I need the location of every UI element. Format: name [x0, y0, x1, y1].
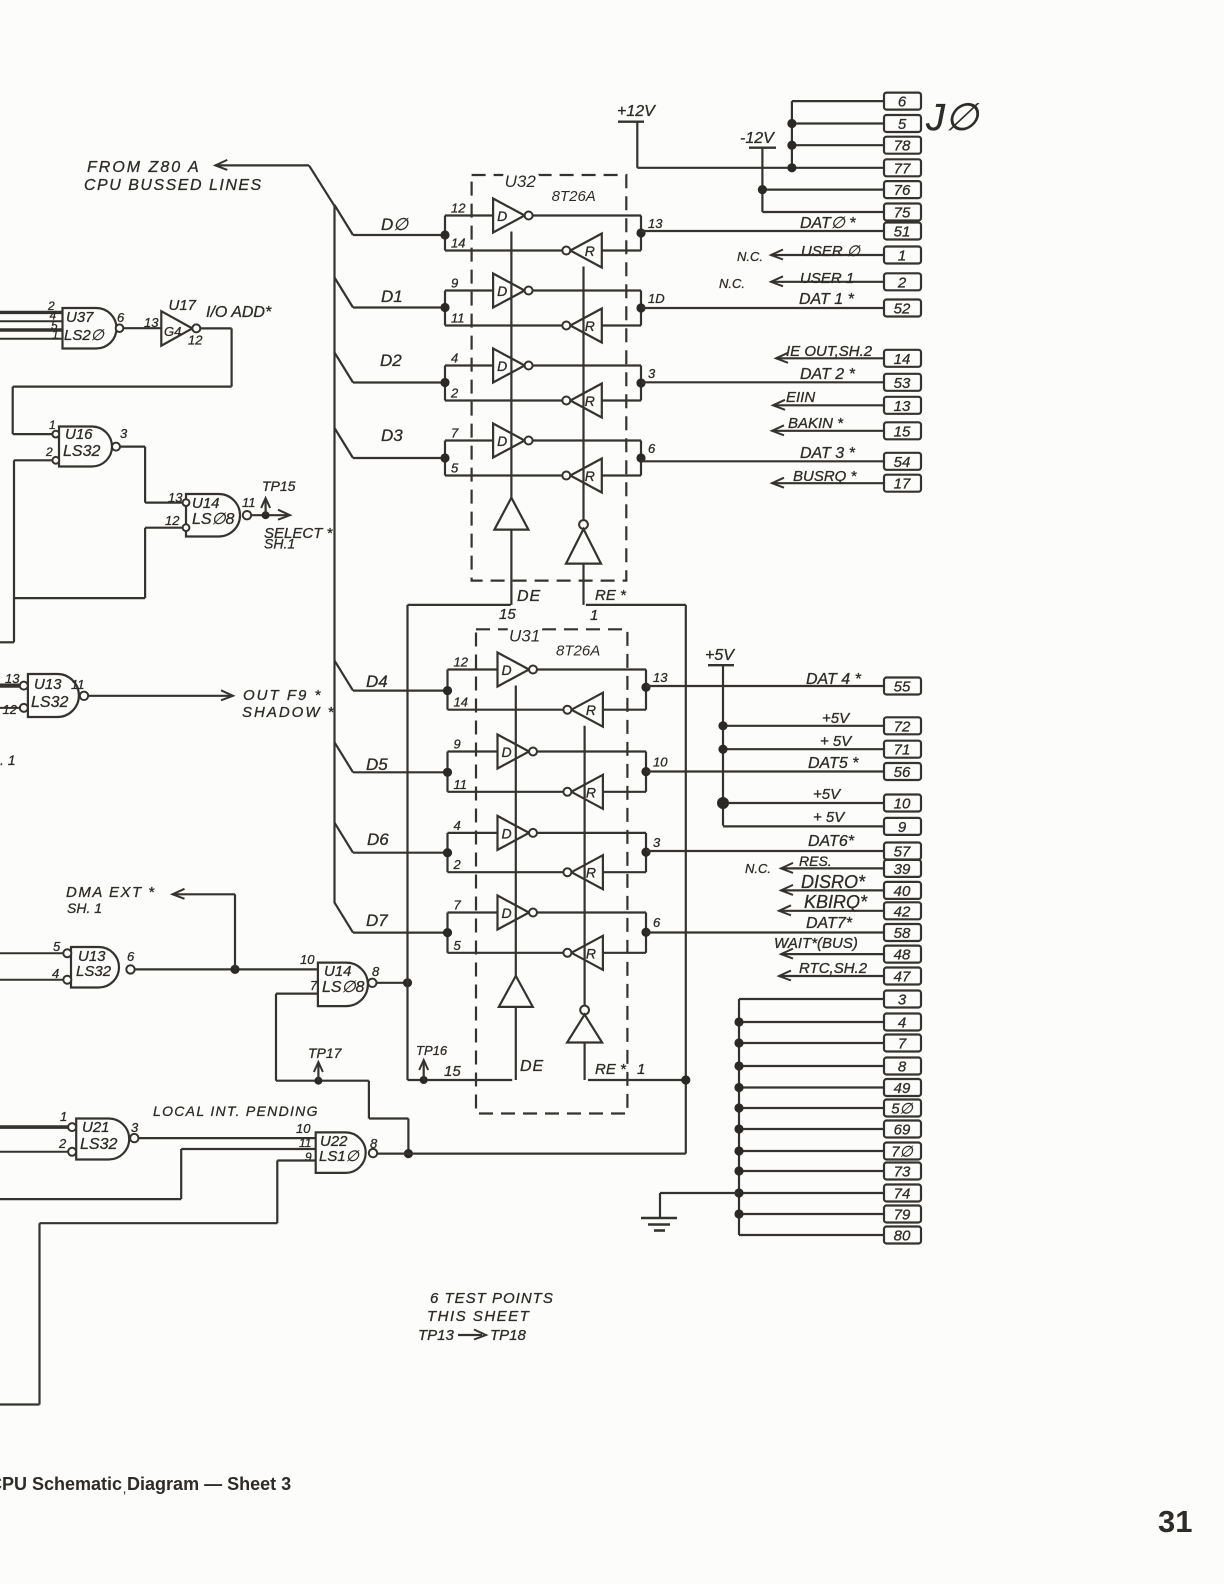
svg-text:D5: D5	[366, 755, 388, 774]
svg-text:49: 49	[894, 1080, 911, 1097]
svg-text:79: 79	[894, 1207, 911, 1224]
svg-text:IE OUT,SH.2: IE OUT,SH.2	[786, 343, 873, 360]
svg-text:DAT 3 *: DAT 3 *	[800, 445, 856, 462]
svg-text:N.C.: N.C.	[737, 249, 763, 264]
svg-text:55: 55	[894, 679, 911, 696]
wire RTC,SH.2 pin 47	[779, 960, 921, 986]
wire RES. N.C. pin 39	[745, 853, 921, 878]
svg-text:U32: U32	[505, 172, 537, 191]
svg-text:D: D	[502, 825, 512, 841]
svg-text:5: 5	[451, 461, 459, 476]
svg-text:N.C.: N.C.	[745, 861, 771, 876]
wire ground pin 8	[734, 1058, 921, 1076]
svg-text:. 1: . 1	[0, 752, 16, 768]
svg-text:8: 8	[370, 1136, 378, 1151]
svg-text:DAT5 *: DAT5 *	[808, 755, 859, 772]
svg-text:9: 9	[305, 1150, 312, 1164]
wire ground pin 80	[739, 1227, 921, 1245]
svg-text:LS2∅: LS2∅	[64, 327, 105, 344]
svg-text:SHADOW *: SHADOW *	[242, 704, 336, 721]
svg-text:15: 15	[499, 606, 516, 623]
svg-text:D∅: D∅	[381, 215, 409, 234]
svg-text:7: 7	[310, 978, 318, 993]
wire USER0 N.C. pin 1	[737, 243, 921, 265]
svg-text:5∅: 5∅	[891, 1101, 913, 1118]
svg-text:D: D	[497, 433, 507, 449]
power -12V	[740, 130, 776, 212]
svg-text:D: D	[502, 662, 512, 678]
svg-text:4: 4	[451, 351, 458, 366]
svg-text:7: 7	[451, 426, 459, 441]
svg-text:J∅: J∅	[925, 97, 980, 139]
svg-text:8: 8	[372, 964, 380, 979]
svg-text:39: 39	[894, 861, 911, 878]
svg-text:42: 42	[894, 903, 911, 920]
wire DISRO* pin 40	[781, 872, 921, 900]
svg-text:6: 6	[127, 949, 135, 964]
svg-text:U13: U13	[34, 676, 62, 693]
svg-text:LS32: LS32	[76, 963, 112, 980]
svg-text:75: 75	[894, 205, 911, 222]
svg-text:12: 12	[454, 655, 469, 670]
wire DAT5* line to pin 56	[646, 755, 921, 781]
svg-text:47: 47	[894, 969, 911, 986]
svg-text:78: 78	[894, 138, 911, 155]
wire ground pin 49	[734, 1079, 921, 1097]
svg-text:DAT 2 *: DAT 2 *	[800, 366, 856, 383]
svg-text:13: 13	[648, 216, 663, 231]
svg-text:+ 5V: + 5V	[820, 733, 853, 750]
wire ground bus vertical	[738, 999, 740, 1235]
svg-text:USER ∅: USER ∅	[801, 243, 861, 260]
svg-text:U21: U21	[82, 1119, 110, 1136]
svg-text:52: 52	[894, 301, 911, 318]
wire data line D3 stub	[335, 426, 446, 458]
svg-text:10: 10	[296, 1121, 311, 1136]
ground symbol	[641, 1193, 739, 1231]
svg-text:58: 58	[894, 925, 911, 942]
svg-text:DE: DE	[520, 1058, 544, 1075]
svg-text:6: 6	[898, 94, 907, 111]
svg-text:1: 1	[52, 328, 59, 342]
svg-text:LS∅8: LS∅8	[192, 511, 235, 528]
wire ground pin 7	[734, 1035, 921, 1053]
svg-text:14: 14	[454, 695, 468, 710]
wire WAIT*(BUS) pin 48	[774, 935, 921, 964]
svg-text:R: R	[586, 702, 596, 718]
svg-text:6: 6	[117, 310, 125, 325]
svg-text:R: R	[585, 318, 595, 334]
svg-text:R: R	[586, 784, 596, 800]
svg-text:56: 56	[894, 764, 911, 781]
wire OUT F9* / SHADOW* output arrow	[88, 687, 335, 721]
wire data line D0 stub	[335, 205, 446, 235]
svg-text:DAT 4 *: DAT 4 *	[806, 671, 862, 688]
svg-text:LS32: LS32	[80, 1136, 117, 1153]
wire DAT7* line to pin 58	[646, 915, 921, 942]
svg-text:U37: U37	[66, 309, 94, 326]
svg-text:40: 40	[894, 883, 911, 900]
wire DAT1* line to pin 52	[641, 291, 921, 318]
wire RE* net U22.8 to U32.1 and U31.1	[377, 605, 690, 1154]
buffer U31 DE driver	[444, 686, 544, 1081]
svg-text:9: 9	[451, 276, 458, 291]
svg-text:KBIRQ*: KBIRQ*	[804, 892, 868, 912]
svg-text:R: R	[585, 393, 595, 409]
svg-text:1D: 1D	[648, 291, 665, 306]
wire data line D2 stub	[335, 351, 446, 383]
buffer U32 row pins 7/5 out 6	[440, 424, 656, 493]
wire data line D4 stub	[335, 661, 448, 691]
svg-text:R: R	[585, 468, 595, 484]
svg-text:SH. 1: SH. 1	[67, 900, 102, 916]
svg-text:DMA EXT *: DMA EXT *	[66, 884, 156, 901]
svg-text:11: 11	[71, 677, 85, 692]
buffer U32 row pins 4/2 out 3	[440, 349, 656, 418]
svg-text:11: 11	[454, 777, 468, 792]
svg-text:12: 12	[3, 702, 18, 717]
svg-text:U14: U14	[324, 963, 352, 980]
svg-text:15: 15	[894, 423, 911, 440]
svg-text:1: 1	[637, 1061, 645, 1078]
wire ground pin 4	[734, 1014, 921, 1032]
wire EIIN pin 13	[773, 389, 921, 415]
wire ground pin 79	[734, 1206, 921, 1224]
svg-text:LOCAL INT. PENDING: LOCAL INT. PENDING	[153, 1103, 319, 1119]
buffer U31 row pins 12/14 out 13	[443, 653, 668, 727]
svg-text:USER 1: USER 1	[800, 270, 854, 287]
wire data line D1 stub	[335, 278, 446, 308]
svg-text:12: 12	[188, 333, 203, 348]
svg-text:U16: U16	[65, 426, 93, 443]
svg-text:BAKIN *: BAKIN *	[788, 415, 844, 432]
wire U14a pin12 net	[13, 528, 182, 598]
svg-text:53: 53	[894, 375, 911, 392]
svg-text:2: 2	[453, 857, 462, 872]
wire KBIRQ* pin 42	[779, 892, 921, 920]
wire U22 pin11 net to page edge	[0, 1149, 316, 1199]
svg-text:9: 9	[898, 819, 907, 836]
svg-text:D6: D6	[367, 830, 389, 849]
wire DAT2* line to pin 53	[641, 366, 921, 392]
svg-text:DAT 1 *: DAT 1 *	[799, 291, 855, 308]
svg-text:+5V: +5V	[705, 647, 735, 664]
svg-text:80: 80	[894, 1228, 911, 1245]
wire data line D6 stub	[335, 823, 448, 853]
svg-text:13: 13	[894, 398, 911, 415]
svg-text:TP13: TP13	[418, 1327, 455, 1344]
svg-text:72: 72	[894, 718, 911, 735]
svg-text:I/O ADD*: I/O ADD*	[206, 304, 272, 321]
svg-text:EIIN: EIIN	[786, 389, 815, 406]
svg-text:RTC,SH.2: RTC,SH.2	[799, 960, 868, 977]
buffer U31 RE driver	[567, 726, 645, 1080]
svg-text:51: 51	[894, 224, 911, 241]
buffer U31 row pins 4/2 out 3	[443, 816, 661, 889]
wire data line D5 stub	[335, 742, 448, 774]
wire +12V bus to pins 6,5,78,77	[637, 101, 884, 172]
svg-text:6: 6	[653, 915, 661, 930]
svg-text:CPU BUSSED LINES: CPU BUSSED LINES	[84, 177, 263, 194]
svg-text:TP15: TP15	[262, 478, 296, 494]
svg-text:4: 4	[454, 818, 461, 833]
svg-text:1: 1	[49, 418, 56, 432]
wire DAT3* line to pin 54	[641, 445, 921, 471]
svg-text:LS32: LS32	[63, 443, 100, 460]
buffer U32 row pins 12/14 out 13	[440, 199, 663, 268]
svg-text:13: 13	[5, 671, 20, 686]
svg-text:57: 57	[894, 844, 911, 861]
svg-text:BUSRQ *: BUSRQ *	[793, 468, 858, 485]
svg-text:TP17: TP17	[308, 1045, 343, 1061]
svg-text:13: 13	[653, 670, 668, 685]
svg-text:DAT7*: DAT7*	[806, 915, 853, 932]
wire +5V to pin 9	[723, 809, 921, 836]
buffer U32 RE driver	[566, 267, 627, 625]
caption CPU Schematic Diagram Sheet 3	[0, 1474, 291, 1504]
svg-text:N.C.: N.C.	[719, 276, 745, 291]
svg-text:FROM Z80 A: FROM Z80 A	[87, 159, 201, 176]
svg-text:D4: D4	[366, 672, 388, 691]
wire IE OUT,SH.2 pin 14	[776, 343, 921, 368]
svg-text:OUT F9 *: OUT F9 *	[243, 687, 322, 704]
buffer U32 row pins 9/11 out 1D	[440, 274, 664, 343]
svg-text:13: 13	[168, 490, 183, 505]
svg-text:LS32: LS32	[31, 694, 68, 711]
gate U37 LS20 4-input NAND	[0, 299, 125, 349]
svg-text:THIS SHEET: THIS SHEET	[427, 1308, 531, 1325]
svg-text:D1: D1	[381, 287, 403, 306]
svg-text:1: 1	[898, 248, 906, 265]
wire +5V to pin 10	[717, 786, 921, 813]
svg-text:LS1∅: LS1∅	[319, 1148, 360, 1165]
svg-text:11: 11	[451, 311, 465, 326]
svg-text:10: 10	[653, 755, 668, 770]
wire ground pin 3	[739, 991, 921, 1009]
svg-text:D2: D2	[380, 351, 402, 370]
svg-text:13: 13	[144, 315, 159, 330]
svg-text:2: 2	[45, 445, 53, 459]
svg-text:8T26A: 8T26A	[556, 642, 600, 659]
svg-text:3: 3	[131, 1120, 139, 1135]
svg-text:7: 7	[454, 898, 462, 913]
svg-text:TP18: TP18	[490, 1327, 527, 1344]
svg-text:+5V: +5V	[813, 786, 842, 803]
power +12V	[617, 103, 656, 168]
svg-text:3: 3	[898, 992, 907, 1009]
svg-text:8: 8	[898, 1059, 907, 1076]
wire +5V to pin 71	[718, 733, 921, 759]
buffer U32 DE driver	[494, 232, 541, 624]
wire DAT4* line to pin 55	[646, 671, 921, 696]
wire USER1 N.C. pin 2	[719, 270, 921, 291]
svg-text:10: 10	[894, 796, 911, 813]
svg-text:SH.1: SH.1	[264, 536, 295, 552]
wire +5V to pin 72	[718, 710, 921, 735]
gate U22 LS10	[296, 1121, 378, 1173]
gate U13 LS32 (bottom)	[0, 939, 135, 988]
svg-text:11: 11	[242, 495, 256, 510]
gate U14 LS08 (top)	[165, 490, 256, 537]
buffer U31 row pins 9/11 out 10	[443, 735, 668, 809]
svg-text:14: 14	[451, 236, 465, 251]
svg-text:R: R	[586, 865, 596, 881]
gate U16 LS32	[45, 418, 128, 467]
svg-text:9: 9	[454, 737, 461, 752]
svg-text:76: 76	[894, 182, 911, 199]
wire U16.3 to U14a.13	[120, 447, 183, 503]
wire I/O ADD* net U17.12 to U16.1	[13, 328, 232, 434]
test point TP17	[308, 1045, 343, 1085]
svg-text:D7: D7	[366, 911, 388, 930]
IC U31 8T26A bus transceiver dashed outline	[476, 626, 627, 1113]
svg-text:8T26A: 8T26A	[552, 188, 596, 205]
svg-text:+5V: +5V	[822, 710, 851, 727]
svg-text:4: 4	[898, 1015, 906, 1032]
svg-text:74: 74	[894, 1186, 911, 1203]
svg-text:D: D	[502, 744, 512, 760]
gate U14 LS08 (middle)	[300, 952, 380, 1006]
svg-text:73: 73	[894, 1164, 911, 1181]
wire U13b.6 to U14b.10 with DMA EXT* branch	[66, 884, 318, 974]
wire -12V to pins 76,75	[758, 185, 884, 212]
svg-text:2: 2	[58, 1136, 67, 1151]
svg-text:6 TEST POINTS: 6 TEST POINTS	[430, 1290, 554, 1307]
svg-text:+ 5V: + 5V	[813, 809, 846, 826]
svg-text:CPU Schematic Diagram — Sheet: CPU Schematic Diagram — Sheet 3	[0, 1474, 291, 1494]
svg-text:6: 6	[648, 441, 656, 456]
svg-text:LS∅8: LS∅8	[322, 979, 365, 996]
wire DAT6* line to pin 57	[646, 833, 921, 861]
svg-text:-12V: -12V	[740, 130, 775, 147]
svg-text:TP16: TP16	[416, 1043, 448, 1058]
svg-text:5: 5	[53, 939, 61, 954]
svg-text:3: 3	[653, 835, 661, 850]
svg-text:5: 5	[454, 938, 462, 953]
svg-text:1: 1	[60, 1109, 67, 1124]
wire DAT0* line to pin 51	[641, 215, 921, 241]
wire BUSRQ* pin 17	[772, 468, 921, 493]
wire ground pin 69	[734, 1121, 921, 1139]
wire DE net U14b.8 to U32.15 and U31.15	[377, 605, 513, 1080]
wire BAKIN* pin 15	[772, 415, 921, 440]
wire U21.3 to U22.10	[139, 1137, 316, 1139]
svg-text:3: 3	[120, 426, 128, 441]
wire data line D7 stub	[335, 903, 448, 933]
svg-text:’: ’	[123, 1488, 126, 1504]
note 6 test points this sheet	[418, 1290, 554, 1344]
svg-text:31: 31	[1158, 1504, 1192, 1539]
svg-text:17: 17	[894, 476, 911, 493]
svg-text:77: 77	[894, 160, 911, 177]
test point TP15 and SELECT* output	[251, 478, 333, 552]
svg-text:RE *: RE *	[595, 1061, 627, 1078]
svg-text:7: 7	[898, 1036, 907, 1053]
svg-text:2: 2	[897, 274, 907, 291]
test point TP16	[416, 1043, 448, 1084]
svg-text:R: R	[586, 945, 596, 961]
svg-text:D3: D3	[381, 426, 403, 445]
svg-text:2: 2	[450, 386, 459, 401]
svg-text:DAT6*: DAT6*	[808, 833, 855, 850]
svg-text:D: D	[497, 208, 507, 224]
svg-text:+12V: +12V	[617, 103, 656, 120]
svg-text:D: D	[502, 905, 512, 921]
wire ground pin 74	[734, 1185, 921, 1203]
svg-text:15: 15	[444, 1063, 461, 1080]
svg-text:R: R	[585, 243, 595, 259]
svg-text:D: D	[497, 283, 507, 299]
svg-text:RES.: RES.	[799, 853, 832, 869]
svg-text:12: 12	[451, 201, 466, 216]
power +5V	[705, 647, 735, 826]
wire Z80 data bus vertical	[333, 206, 335, 903]
svg-text:U17: U17	[169, 297, 197, 314]
svg-text:1: 1	[590, 607, 598, 624]
svg-text:DAT∅ *: DAT∅ *	[800, 215, 856, 232]
svg-text:G4: G4	[164, 324, 181, 339]
svg-text:WAIT*(BUS): WAIT*(BUS)	[774, 935, 858, 952]
connector J0 pin boxes top group	[884, 93, 921, 222]
wire U14b pin7 to TP17 zigzag to U22.8	[276, 994, 413, 1159]
svg-text:3: 3	[648, 366, 656, 381]
buffer U31 row pins 7/5 out 6	[443, 896, 661, 970]
wire U16 pin2 net to page edge	[0, 460, 52, 642]
svg-text:14: 14	[894, 351, 911, 368]
inverter U17 G4	[123, 297, 272, 348]
IC U32 8T26A bus transceiver dashed outline	[472, 172, 627, 581]
wire ground pin 70	[734, 1143, 921, 1161]
svg-text:RE *: RE *	[595, 587, 627, 604]
svg-text:DE: DE	[517, 588, 541, 605]
label FROM Z80A CPU BUSSED LINES with arrow	[84, 159, 335, 206]
svg-text:48: 48	[894, 947, 911, 964]
svg-text:54: 54	[894, 454, 911, 471]
svg-text:D: D	[497, 358, 507, 374]
svg-text:71: 71	[894, 742, 911, 759]
svg-text:7∅: 7∅	[891, 1144, 913, 1161]
wire U22 pin9 net to page edge	[0, 1161, 316, 1405]
wire ground pin 73	[734, 1163, 921, 1181]
svg-text:12: 12	[165, 513, 180, 528]
svg-text:U31: U31	[509, 626, 540, 645]
svg-text:4: 4	[52, 966, 59, 981]
svg-text:DISRO*: DISRO*	[801, 872, 866, 892]
gate U21 LS32	[0, 1109, 139, 1160]
svg-text:U14: U14	[192, 495, 220, 512]
svg-text:69: 69	[894, 1122, 911, 1139]
svg-text:5: 5	[898, 116, 907, 133]
wire ground pin 50	[734, 1100, 921, 1118]
svg-text:10: 10	[300, 952, 315, 967]
gate U13 LS32 (top)	[0, 671, 88, 717]
